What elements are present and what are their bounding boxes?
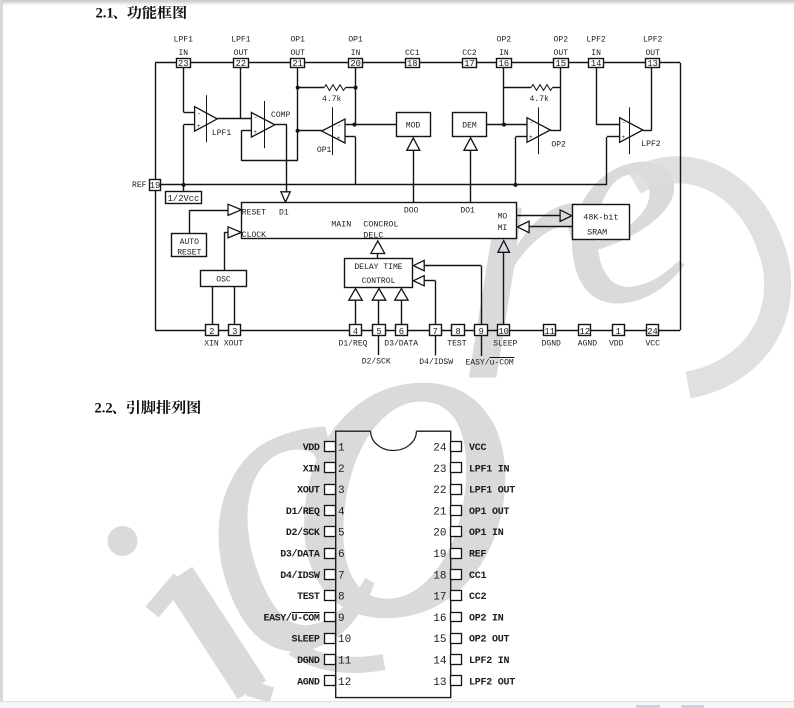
svg-text:CC2: CC2	[462, 49, 477, 58]
svg-text:OP2 IN: OP2 IN	[469, 613, 504, 624]
svg-text:LPF1: LPF1	[174, 36, 193, 45]
pin 17 CC2	[463, 59, 477, 68]
svg-text:OP1 OUT: OP1 OUT	[469, 507, 510, 518]
DIP pin 10 SLEEP	[325, 634, 336, 644]
wire LPF1 output to COMP	[217, 118, 251, 120]
svg-text:AGND: AGND	[297, 677, 320, 688]
svg-text:MI: MI	[498, 224, 508, 233]
svg-text:D4/IDSW: D4/IDSW	[280, 570, 320, 582]
svg-text:OP1: OP1	[317, 146, 332, 155]
svg-text:1: 1	[616, 327, 621, 337]
svg-text:+: +	[337, 135, 341, 142]
svg-text:OP1 IN: OP1 IN	[469, 528, 504, 539]
DIP notch	[371, 431, 417, 450]
pin 16 OP2 IN	[497, 59, 512, 68]
REF net horizontal line	[161, 184, 607, 186]
svg-text:MAIN: MAIN	[331, 220, 351, 230]
junction OP2 plus REF	[514, 183, 518, 187]
svg-text:DGND: DGND	[542, 340, 561, 349]
svg-text:16: 16	[433, 613, 446, 625]
block diagram outer box	[155, 62, 680, 64]
svg-text:4: 4	[353, 327, 358, 337]
svg-text:12: 12	[338, 677, 351, 689]
DIP pin 11 DGND	[325, 655, 336, 665]
svg-text:COMP: COMP	[271, 111, 290, 120]
svg-text:24: 24	[647, 327, 658, 337]
DIP pin 19 REF	[451, 549, 462, 559]
DIP pin 6 D3/DATA	[325, 549, 336, 559]
block 48K-bit SRAM	[573, 205, 630, 240]
svg-text:LPF2: LPF2	[643, 36, 662, 45]
scrollbar thumb 1	[636, 705, 660, 708]
svg-text:XIN: XIN	[303, 464, 320, 475]
op-amp COMP	[251, 113, 274, 138]
bottom pin 3	[229, 325, 241, 336]
svg-text:4.7k: 4.7k	[530, 95, 549, 104]
svg-text:14: 14	[433, 656, 447, 668]
arrow SLEEP into main block	[498, 241, 510, 253]
bottom pin 1	[613, 325, 625, 336]
svg-text:VDD: VDD	[609, 340, 624, 349]
svg-text:+: +	[622, 134, 626, 141]
svg-text:LPF1: LPF1	[231, 36, 250, 45]
svg-text:SRAM: SRAM	[587, 227, 607, 237]
junction OP1 output	[296, 129, 300, 133]
svg-text:-: -	[622, 119, 626, 126]
DIP pin 15 OP2 OUT	[451, 634, 462, 644]
svg-text:IN: IN	[591, 49, 601, 58]
svg-text:REF: REF	[469, 550, 487, 561]
svg-text:48K-bit: 48K-bit	[583, 212, 618, 222]
bottom pin 10	[498, 325, 510, 336]
arrow MO to SRAM	[517, 215, 561, 217]
bottom pin 4	[350, 325, 362, 336]
wire pin16 down	[503, 68, 505, 125]
wire LPF1 plus input to REF	[184, 124, 195, 126]
svg-text:DELAY TIME: DELAY TIME	[354, 263, 402, 272]
svg-text:OP2: OP2	[551, 141, 566, 150]
svg-text:7: 7	[433, 327, 438, 337]
svg-text:IN: IN	[499, 49, 509, 58]
svg-text:5: 5	[376, 327, 381, 337]
stub below pin 9	[481, 336, 483, 357]
svg-text:XIN: XIN	[204, 340, 219, 349]
svg-text:2: 2	[338, 464, 345, 476]
svg-text:CC1: CC1	[405, 49, 420, 58]
svg-text:-: -	[197, 110, 201, 117]
DIP pin 8 TEST	[325, 591, 336, 601]
resistor R2 4.7k	[504, 87, 531, 89]
svg-text:VDD: VDD	[303, 443, 320, 454]
svg-text:CONTROL: CONTROL	[362, 277, 396, 286]
svg-text:DELC: DELC	[363, 231, 383, 241]
scrollbar thumb 2	[681, 705, 704, 708]
svg-text:D3/DATA: D3/DATA	[280, 549, 320, 561]
svg-text:12: 12	[580, 327, 591, 337]
svg-text:10: 10	[338, 634, 351, 646]
svg-text:EASY/U-COM: EASY/U-COM	[263, 612, 319, 624]
svg-text:2: 2	[209, 327, 214, 337]
svg-text:8: 8	[338, 592, 345, 604]
svg-text:IN: IN	[178, 49, 188, 58]
svg-text:MO: MO	[498, 213, 508, 222]
svg-text:4: 4	[338, 506, 345, 518]
DIP pin 4 D1/REQ	[325, 506, 336, 516]
svg-text:LPF1 OUT: LPF1 OUT	[469, 486, 515, 497]
svg-text:D1/REQ: D1/REQ	[339, 340, 368, 349]
wire LPF2 plus to REF end	[607, 136, 620, 138]
svg-text:D1: D1	[279, 208, 289, 217]
DIP pin 23 LPF1 IN	[451, 463, 462, 473]
svg-text:IN: IN	[351, 49, 361, 58]
svg-text:6: 6	[399, 327, 404, 337]
bottom pin 2	[206, 325, 219, 336]
svg-text:CONCROL: CONCROL	[363, 220, 398, 230]
svg-text:MOD: MOD	[406, 122, 421, 131]
svg-text:17: 17	[433, 592, 446, 604]
svg-text:4.7k: 4.7k	[322, 95, 341, 104]
svg-text:D3/DATA: D3/DATA	[384, 340, 418, 349]
op-amp OP1	[322, 119, 345, 143]
svg-text:SLEEP: SLEEP	[291, 635, 319, 646]
svg-text:OUT: OUT	[554, 49, 569, 58]
wire OSC to pin2	[212, 287, 214, 325]
wire OP2 output to pin15	[550, 130, 561, 132]
arrow from pin4	[349, 289, 362, 301]
svg-text:13: 13	[647, 59, 658, 69]
svg-text:9: 9	[338, 613, 345, 625]
block MAIN CONCROL DELC	[242, 203, 517, 239]
svg-text:OUT: OUT	[234, 49, 249, 58]
svg-text:DO1: DO1	[460, 206, 475, 215]
block AUTO RESET	[172, 234, 207, 257]
svg-text:D4/IDSW: D4/IDSW	[419, 358, 453, 367]
svg-text:DGND: DGND	[297, 656, 320, 667]
wire pin20 down to OP1 minus	[355, 68, 357, 125]
arrow from pin5	[372, 289, 385, 301]
arrow side input 2 from pin7	[413, 276, 424, 286]
svg-text:OUT: OUT	[290, 49, 305, 58]
svg-text:1: 1	[338, 443, 345, 455]
svg-text:LPF2 OUT: LPF2 OUT	[469, 677, 515, 688]
svg-text:OP1: OP1	[348, 36, 363, 45]
svg-text:RESET: RESET	[242, 208, 266, 217]
svg-text:AUTO: AUTO	[180, 238, 199, 247]
junction resistor R1 right	[354, 86, 358, 90]
wire AUTO RESET to RESET	[189, 210, 191, 234]
svg-text:D2/SCK: D2/SCK	[286, 527, 320, 539]
DIP pin 18 CC1	[451, 570, 462, 580]
DIP pin 5 D2/SCK	[325, 527, 336, 537]
arrow into DEM	[464, 138, 477, 150]
wire pin22 down	[240, 68, 242, 119]
pin 21 OP1 OUT	[291, 59, 305, 68]
junction OP1 minus node	[353, 123, 357, 127]
wire OSC to pin3	[234, 287, 236, 325]
pin 13 LPF2 OUT	[646, 59, 660, 68]
svg-text:CC1: CC1	[469, 571, 487, 582]
svg-text:5: 5	[338, 528, 345, 540]
svg-text:LPF2 IN: LPF2 IN	[469, 656, 510, 667]
svg-text:24: 24	[433, 443, 447, 455]
wire REF to 1/2Vcc box	[183, 185, 185, 192]
overline for u-COM	[490, 357, 515, 359]
svg-text:21: 21	[433, 506, 447, 518]
DIP pin 2 XIN	[325, 463, 336, 473]
block MOD	[397, 113, 431, 137]
svg-text:CC2: CC2	[469, 592, 487, 603]
wire OP1 plus to REF	[345, 136, 356, 138]
svg-text:15: 15	[433, 634, 446, 646]
svg-text:OP2: OP2	[554, 36, 569, 45]
svg-text:D2/SCK: D2/SCK	[362, 357, 391, 366]
svg-text:19: 19	[150, 181, 161, 191]
svg-text:18: 18	[407, 59, 418, 69]
svg-text:CLOCK: CLOCK	[242, 231, 266, 240]
svg-text:+: +	[253, 129, 257, 136]
svg-text:11: 11	[338, 656, 352, 668]
svg-text:TEST: TEST	[297, 592, 320, 603]
svg-text:SLEEP: SLEEP	[493, 340, 517, 349]
DIP pin 1 VDD	[325, 442, 336, 452]
stub below pin 5	[378, 336, 380, 356]
svg-text:20: 20	[433, 528, 446, 540]
wire DEM output to OP2 minus	[487, 124, 527, 126]
stub below pin 7	[435, 336, 437, 356]
wire DO1 to DEM	[470, 150, 472, 203]
svg-text:+: +	[197, 123, 201, 130]
svg-text:9: 9	[478, 327, 483, 337]
bottom pin 9	[475, 325, 488, 336]
wire COMP plus feedback loop	[241, 130, 251, 132]
svg-text:13: 13	[433, 677, 446, 689]
op-amp OP2	[527, 118, 550, 143]
svg-text:TEST: TEST	[447, 340, 466, 349]
svg-text:18: 18	[433, 570, 446, 582]
svg-text:-: -	[254, 114, 258, 121]
bottom pin 6	[396, 325, 408, 336]
wire pin23 to LPF1 minus input	[183, 68, 185, 113]
pin 14 LPF2 IN	[589, 59, 604, 68]
wire LPF2 output to pin13	[643, 130, 652, 132]
pin 22 LPF1 OUT	[234, 59, 249, 68]
svg-text:+: +	[529, 134, 533, 141]
wire pin21 down	[297, 68, 299, 131]
svg-text:LPF2: LPF2	[586, 36, 605, 45]
bottom pin 11	[544, 325, 556, 336]
svg-text:19: 19	[433, 549, 446, 561]
arrow SRAM to MI	[517, 221, 529, 233]
svg-text:22: 22	[433, 485, 446, 497]
svg-text:OP2 OUT: OP2 OUT	[469, 635, 510, 646]
arrow into MOD	[407, 138, 420, 150]
arrow DELAY to main block	[377, 254, 379, 259]
pin 15 OP2 OUT	[554, 59, 569, 68]
DIP pin 22 LPF1 OUT	[451, 485, 462, 495]
arrow RESET input	[228, 204, 241, 215]
DIP pin 12 AGND	[325, 676, 336, 686]
svg-text:AGND: AGND	[578, 340, 597, 349]
block OSC	[201, 271, 247, 287]
bottom pin 5	[373, 325, 386, 336]
DIP pin 14 LPF2 IN	[451, 655, 462, 665]
svg-text:8: 8	[455, 327, 460, 337]
svg-text:-: -	[529, 119, 533, 126]
block DELAY TIME CONTROL	[345, 259, 413, 288]
DIP package outline	[336, 431, 451, 697]
svg-text:7: 7	[338, 570, 345, 582]
svg-text:DOO: DOO	[404, 206, 419, 215]
DIP pin 21 OP1 OUT	[451, 506, 462, 516]
wire DOO to MOD	[413, 150, 415, 203]
bottom pin 8	[452, 325, 465, 336]
svg-text:RESET: RESET	[177, 248, 201, 257]
svg-text:3: 3	[338, 485, 345, 497]
svg-text:OUT: OUT	[645, 49, 660, 58]
svg-text:OSC: OSC	[216, 276, 231, 285]
svg-text:DEM: DEM	[462, 122, 477, 131]
svg-text:VCC: VCC	[645, 340, 660, 349]
svg-text:6: 6	[338, 549, 345, 561]
block DEM	[453, 113, 487, 137]
DIP pin 13 LPF2 OUT	[451, 676, 462, 686]
svg-text:2.2: 2.2	[95, 401, 113, 417]
svg-text:LPF1 IN: LPF1 IN	[469, 464, 510, 475]
junction REF x183.6	[182, 183, 186, 187]
svg-text:10: 10	[498, 327, 509, 337]
bottom pin 12	[579, 325, 591, 336]
resistor R1 4.7k	[298, 87, 324, 89]
DIP pin 16 OP2 IN	[451, 613, 462, 622]
wire pin14 down to LPF2 minus	[596, 68, 598, 125]
block 1/2Vcc	[166, 192, 202, 204]
wire OP2 plus to REF	[516, 136, 528, 138]
arrow CLOCK input	[228, 227, 241, 238]
svg-text:VCC: VCC	[469, 443, 487, 454]
svg-text:17: 17	[464, 59, 475, 69]
svg-text:11: 11	[544, 327, 555, 337]
DIP pin 3 XOUT	[325, 485, 336, 495]
svg-text:LPF2: LPF2	[641, 140, 660, 149]
svg-text:XOUT: XOUT	[297, 486, 320, 497]
arrow D1 into main control	[281, 192, 290, 203]
svg-text:OP2: OP2	[497, 36, 512, 45]
bottom scrollbar bar	[0, 701, 794, 708]
svg-text:LPF1: LPF1	[212, 129, 231, 138]
op-amp LPF1	[195, 107, 218, 132]
svg-text:1/2Vcc: 1/2Vcc	[168, 194, 200, 204]
DIP pin 20 OP1 IN	[451, 527, 462, 537]
wire COMP output down to D1	[275, 124, 287, 126]
svg-text:D1/REQ: D1/REQ	[286, 506, 320, 518]
page left edge	[0, 0, 3, 701]
DIP pin 9 EASY/U-COM	[325, 613, 336, 622]
DIP pin 24 VCC	[451, 442, 462, 452]
junction resistor R1 left	[296, 86, 300, 90]
bottom pin 24	[647, 325, 659, 336]
pin 18 CC1	[406, 59, 420, 68]
svg-text:XOUT: XOUT	[224, 340, 243, 349]
svg-text:-: -	[337, 122, 341, 129]
op-amp LPF2	[620, 118, 643, 143]
wire OSC to CLOCK	[224, 233, 226, 271]
pin 23 LPF1 IN	[177, 59, 191, 68]
page top edge	[0, 0, 794, 6]
svg-text:23: 23	[433, 464, 446, 476]
svg-text:EASY/u-COM: EASY/u-COM	[465, 359, 513, 368]
svg-text:3: 3	[232, 327, 237, 337]
arrow side input 1 from pin9	[413, 260, 424, 270]
svg-text:2.1: 2.1	[96, 6, 114, 22]
arrow from pin6	[395, 289, 408, 301]
DIP pin 7 D4/IDSW	[325, 570, 336, 580]
wire OP1 output to pin21 node	[298, 130, 322, 132]
pin 20 OP1 IN	[349, 59, 363, 68]
DIP pin 17 CC2	[451, 591, 462, 601]
bottom pin 7	[430, 325, 442, 336]
junction pin16 node	[502, 123, 506, 127]
svg-text:REF: REF	[132, 181, 147, 190]
svg-text:OP1: OP1	[290, 36, 305, 45]
